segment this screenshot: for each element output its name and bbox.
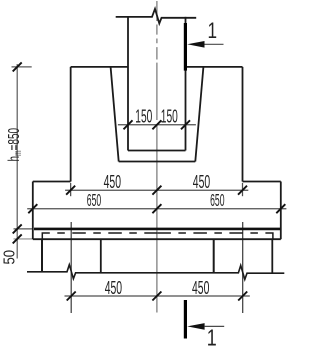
- svg-text:150: 150: [135, 106, 152, 127]
- svg-text:150: 150: [161, 106, 178, 127]
- svg-text:450: 450: [104, 171, 121, 192]
- svg-text:650: 650: [87, 190, 101, 210]
- svg-text:450: 450: [192, 277, 209, 298]
- svg-text:1: 1: [208, 19, 218, 44]
- svg-text:450: 450: [193, 171, 210, 192]
- svg-text:hm=850: hm=850: [5, 128, 24, 162]
- svg-text:1: 1: [207, 326, 217, 348]
- svg-text:650: 650: [210, 190, 224, 210]
- svg-text:450: 450: [105, 277, 122, 298]
- svg-text:50: 50: [2, 250, 19, 265]
